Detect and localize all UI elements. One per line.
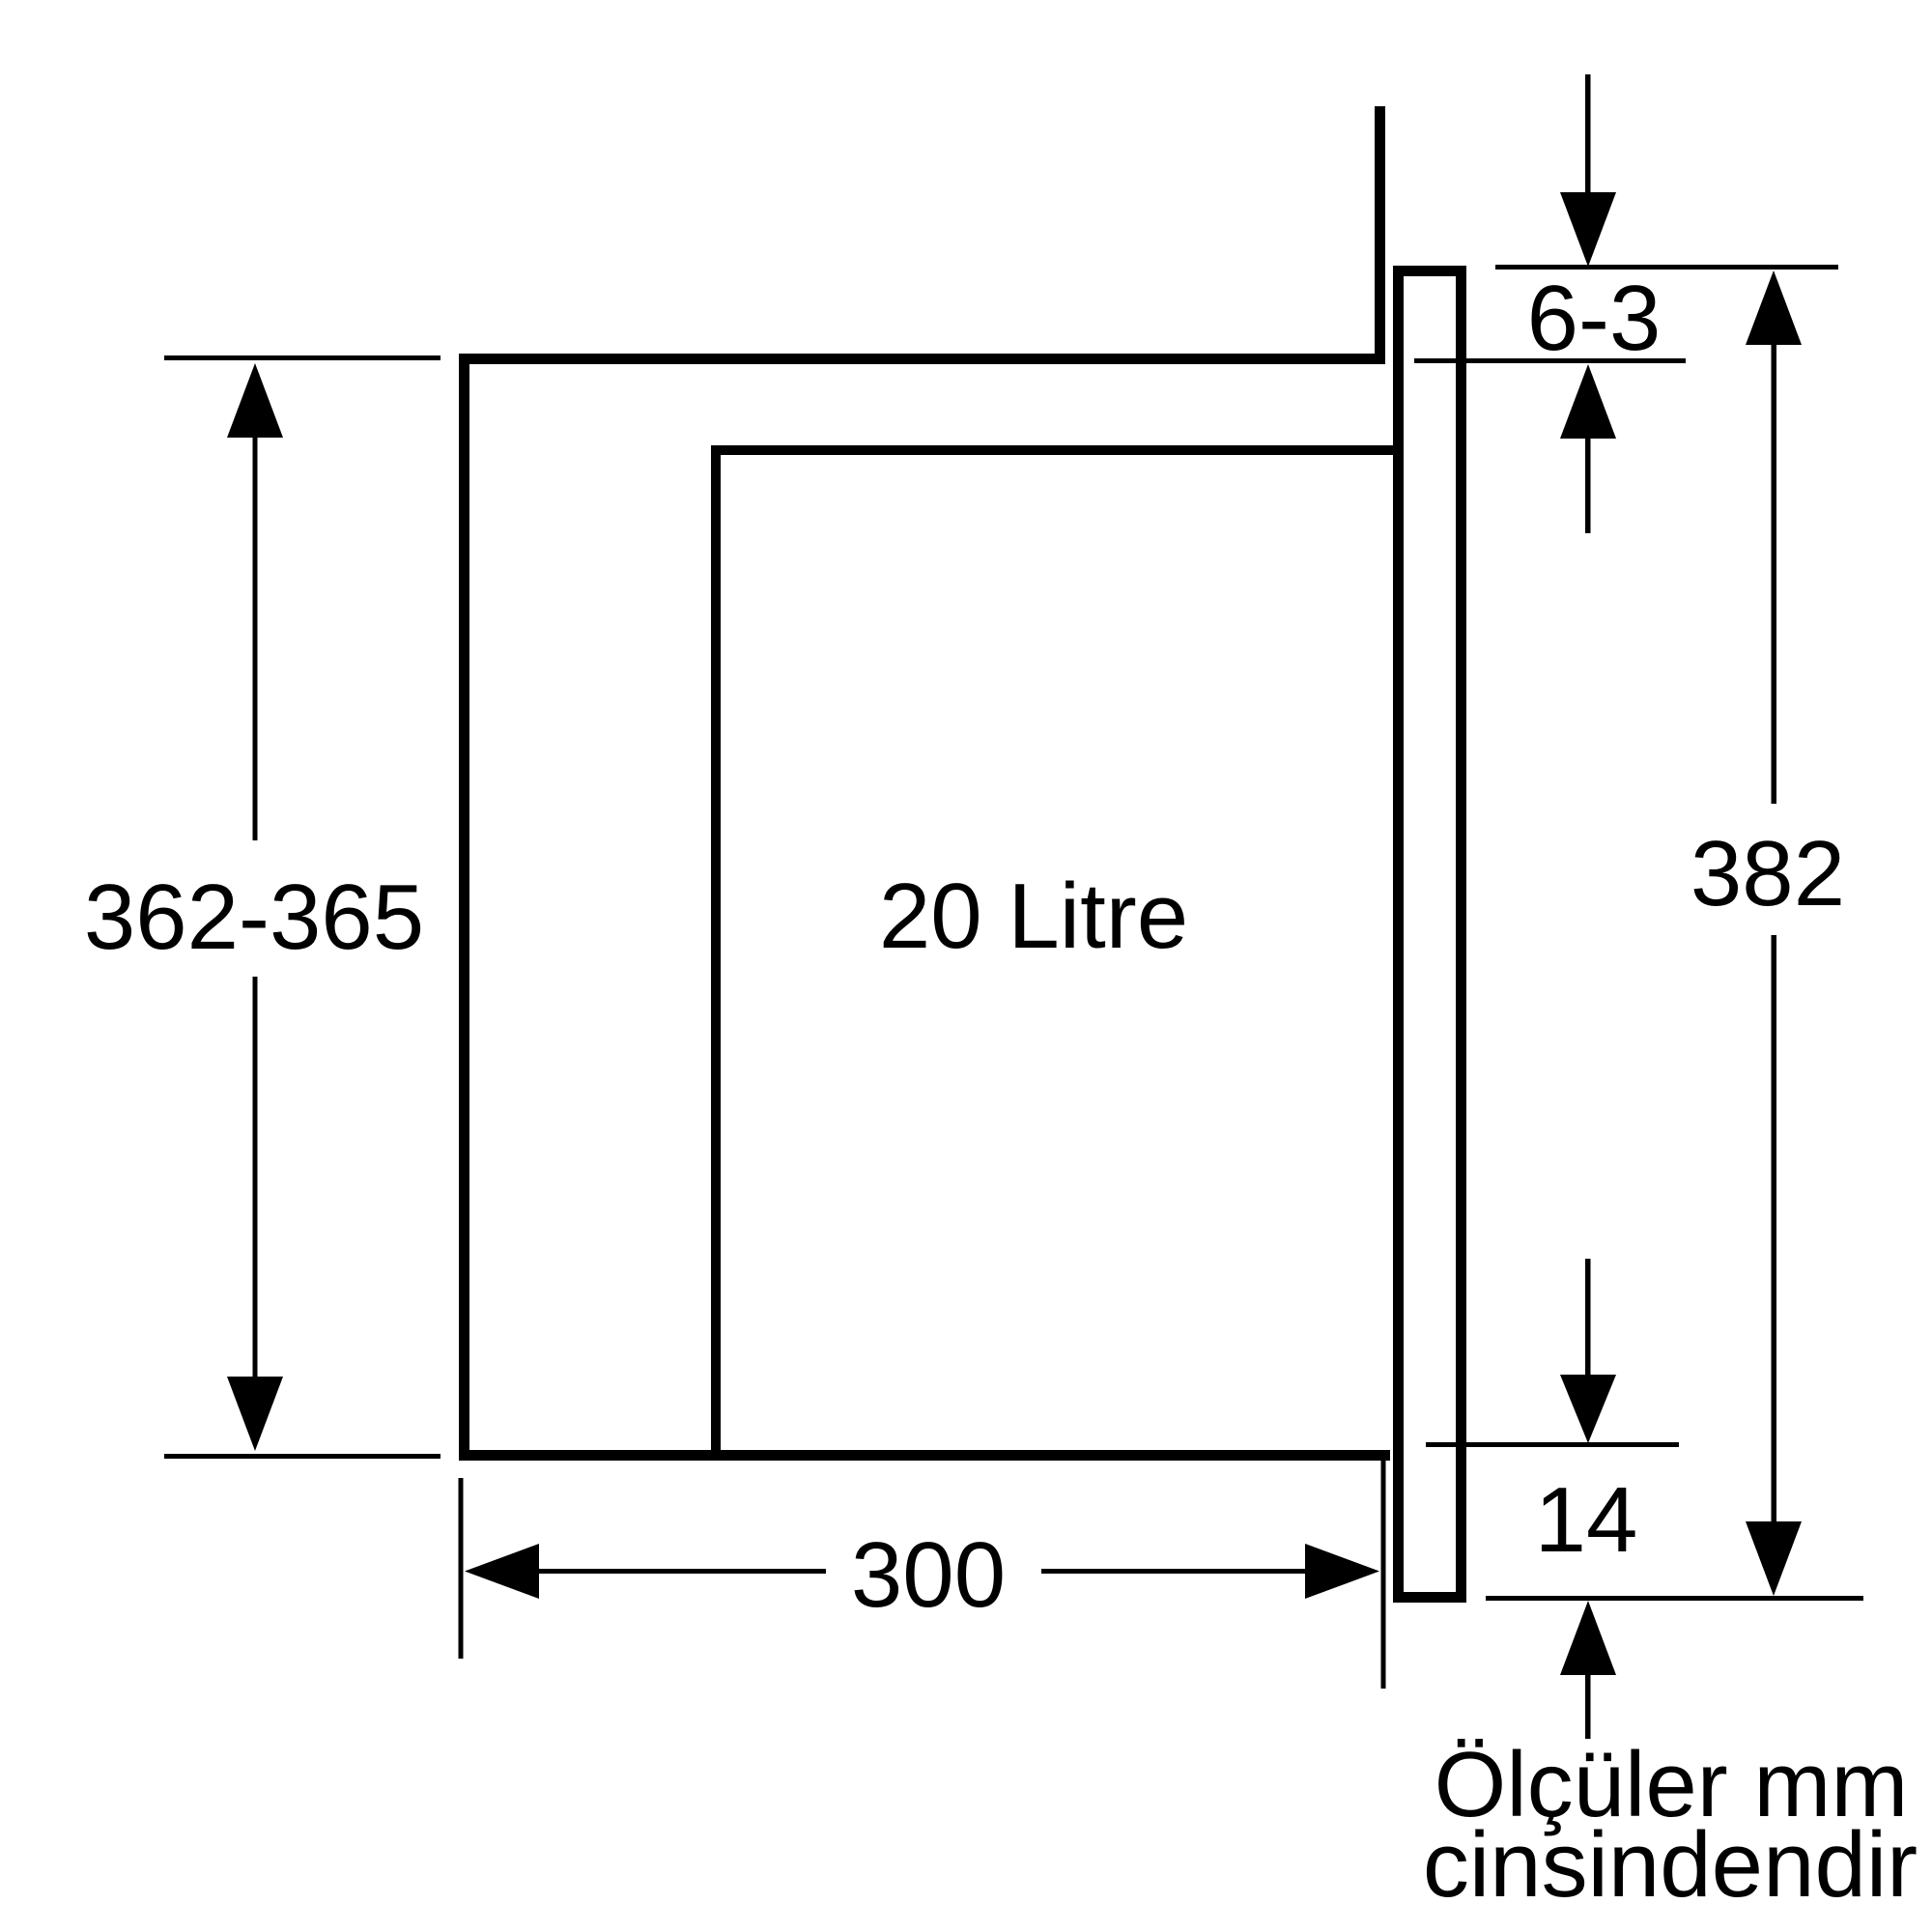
svg-text:300: 300 [851,1523,1006,1627]
dim 6-3 bottom line [1414,358,1686,363]
niche left line [459,354,469,1461]
dim 6-3 up arrow shaft [1585,437,1591,533]
dim 362-365 top extension line [164,355,440,360]
dim 14 down arrowhead [1560,1375,1616,1443]
dim 14 up arrow shaft [1585,1673,1591,1739]
niche bottom line [459,1450,1390,1461]
dim 382 top arrowhead [1746,270,1802,345]
door frame left wall [1393,266,1404,1603]
dim 300 line left segment [537,1569,826,1574]
dim 382 bottom arrowhead [1746,1521,1802,1596]
svg-text:14: 14 [1535,1468,1638,1572]
dim 6-3 down arrowhead [1560,192,1616,267]
svg-text:382: 382 [1690,822,1845,925]
wall line above niche (vertical, top right) [1375,106,1385,364]
dim 300 left extension line [459,1478,464,1659]
dim 362-365 lower shaft [253,977,258,1378]
dim 14 top line [1426,1442,1679,1447]
svg-text:362-365: 362-365 [84,866,424,969]
svg-text:cinsindendir: cinsindendir [1423,1813,1918,1917]
dim 14 down arrow shaft [1585,1259,1591,1377]
dim 382 upper shaft [1772,343,1777,804]
door frame right wall [1456,266,1466,1603]
dim 6-3 down arrow shaft [1585,74,1591,194]
dim 300 right extension line [1381,1461,1386,1689]
door frame bottom cap [1393,1592,1466,1603]
svg-text:20 Litre: 20 Litre [879,865,1188,968]
dim 14 up arrowhead [1560,1601,1616,1675]
dim 300 line right segment [1041,1569,1307,1574]
dim 14 bottom line [1486,1596,1863,1601]
dim 6-3 up arrowhead [1560,364,1616,439]
svg-text:6-3: 6-3 [1527,267,1662,370]
niche top line [459,354,1385,364]
dim 6-3 top line [1495,265,1838,270]
dim 362-365 upper shaft [253,436,258,840]
inner cavity top line (20 Litre box) [711,445,1404,455]
dim 300 right arrowhead [1305,1544,1379,1599]
dim 362-365 bottom extension line [164,1454,440,1459]
dim 362-365 up arrowhead [227,363,283,438]
door frame top cap [1393,266,1466,276]
inner cavity left line [711,445,721,1450]
dim 382 lower shaft [1772,935,1777,1522]
dim 300 left arrowhead [465,1544,539,1599]
dim 362-365 down arrowhead [227,1377,283,1451]
